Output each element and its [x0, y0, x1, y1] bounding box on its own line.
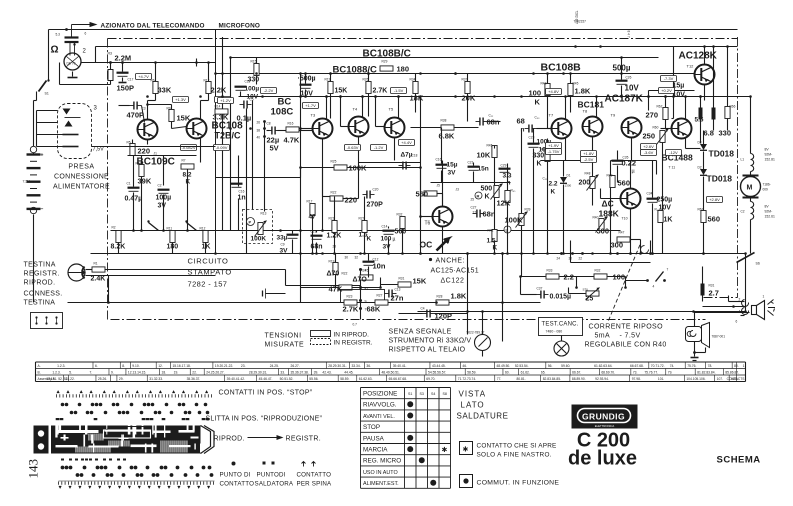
svg-text:9622-789.37: 9622-789.37: [467, 331, 485, 335]
svg-text:R66: R66: [730, 105, 736, 109]
svg-text:AC187K: AC187K: [605, 94, 644, 105]
svg-text:220: 220: [345, 196, 358, 205]
capacitor C32 68n: [479, 118, 481, 126]
resistor R4 vertical: [108, 70, 113, 81]
svg-text:SALDATURE: SALDATURE: [457, 412, 509, 421]
svg-text:de luxe: de luxe: [568, 448, 637, 470]
svg-text:R2: R2: [112, 226, 116, 230]
svg-text:33µ: 33µ: [277, 235, 288, 242]
svg-text:K: K: [551, 189, 556, 196]
svg-text:7687-001: 7687-001: [712, 335, 726, 339]
svg-text:ELETTRONICA: ELETTRONICA: [595, 424, 615, 428]
svg-text:15K: 15K: [335, 88, 348, 95]
svg-text:C29: C29: [501, 164, 507, 168]
contact dots row B: [61, 403, 65, 407]
svg-text:C9: C9: [281, 243, 285, 247]
svg-text:K: K: [367, 236, 372, 243]
svg-text:7186-: 7186-: [763, 183, 771, 187]
diode D1: [560, 177, 567, 183]
svg-text:C16: C16: [436, 158, 442, 162]
wire stage top rail: [239, 96, 701, 98]
battery 7.5V: [30, 146, 36, 152]
svg-text:188K: 188K: [599, 209, 620, 219]
resistor R5 220: [130, 144, 135, 156]
svg-text:R17: R17: [307, 200, 313, 204]
svg-text:CIRCUITO: CIRCUITO: [188, 257, 229, 266]
capacitor C13 27n: [388, 290, 390, 298]
wire chassis dash-dot corner: [704, 297, 738, 299]
svg-text:REGOLABILE CON R40: REGOLABILE CON R40: [585, 342, 667, 349]
resistor R8 2.2K: [206, 82, 211, 94]
svg-text:-12V: -12V: [669, 150, 678, 155]
svg-text:R10: R10: [136, 162, 142, 166]
svg-text:S1: S1: [45, 92, 49, 96]
svg-text:R22: R22: [342, 272, 348, 276]
capacitor C2 100u 3V: [158, 189, 170, 191]
svg-text:15µ: 15µ: [447, 162, 458, 169]
legend punto di contatto: [232, 462, 236, 466]
svg-text:36.: 36.: [366, 364, 371, 368]
svg-text:SLITTA IN POS. “RIPRODUZIONE”: SLITTA IN POS. “RIPRODUZIONE”: [206, 416, 323, 423]
svg-text:25.26.: 25.26.: [98, 377, 107, 381]
svg-text:68.69.70.: 68.69.70.: [601, 371, 615, 375]
svg-text:REGISTR.: REGISTR.: [286, 436, 321, 443]
svg-text:108C: 108C: [271, 107, 294, 118]
svg-text:J5: J5: [437, 184, 441, 188]
svg-text:-1.5V: -1.5V: [394, 88, 404, 93]
wire mid rail: [111, 230, 621, 232]
wire stage1 emitter drops: [133, 156, 135, 187]
svg-text:10V: 10V: [625, 84, 640, 93]
svg-text:5V: 5V: [270, 144, 279, 153]
svg-text:R33: R33: [547, 269, 553, 273]
resistor R12 1K: [203, 231, 208, 243]
svg-text:97.98.: 97.98.: [632, 377, 641, 381]
svg-text:35.36.37.: 35.36.37.: [187, 377, 201, 381]
svg-text:S1: S1: [408, 392, 412, 396]
svg-text:R28: R28: [437, 295, 443, 299]
svg-text:6.: 6.: [95, 364, 98, 368]
microphone MIC: [64, 53, 81, 70]
svg-text:8V: 8V: [765, 205, 770, 209]
svg-text:D3: D3: [698, 141, 702, 145]
svg-text:C21: C21: [468, 161, 474, 165]
wire supply bus BC108B/C upper: [231, 57, 659, 59]
svg-text:71.72.73.74.: 71.72.73.74.: [458, 377, 476, 381]
resistor R10 39K: [139, 165, 144, 177]
svg-text:L1: L1: [741, 158, 745, 162]
svg-text:C16: C16: [239, 190, 245, 194]
svg-text:107.: 107.: [717, 377, 724, 381]
svg-text:C17: C17: [128, 78, 134, 82]
svg-text:A.: A.: [38, 364, 41, 368]
svg-text:26: 26: [257, 121, 261, 125]
svg-text:560: 560: [395, 229, 407, 236]
node remote-control label: [71, 25, 73, 38]
svg-text:82.83.84.85.: 82.83.84.85.: [543, 377, 561, 381]
capacitor C16b 15u 3V: [436, 164, 448, 166]
capacitor C33 68n: [528, 125, 530, 133]
node dots stage1: [154, 61, 157, 64]
svg-text:0.22: 0.22: [622, 159, 637, 168]
svg-text:S4: S4: [431, 392, 435, 396]
svg-text:ALIMENTATORE: ALIMENTATORE: [53, 184, 110, 191]
svg-text:R42: R42: [541, 82, 547, 86]
svg-text:TD018: TD018: [707, 174, 733, 184]
svg-text:R27: R27: [359, 217, 365, 221]
svg-text:73.: 73.: [633, 371, 638, 375]
capacitor C n 500u 10V: [300, 84, 312, 86]
svg-text:28.29.30.31.: 28.29.30.31.: [328, 364, 346, 368]
svg-text:43.44.45.: 43.44.45.: [432, 364, 446, 368]
wire second top rail: [96, 46, 738, 48]
svg-text:70.71.72.: 70.71.72.: [651, 364, 665, 368]
svg-text:T9: T9: [611, 113, 616, 118]
svg-text:9.10.: 9.10.: [132, 364, 139, 368]
svg-text:T10: T10: [622, 217, 628, 221]
motor M: [741, 177, 761, 197]
svg-text:68n: 68n: [483, 210, 496, 219]
resistor R46 12K: [505, 191, 510, 203]
wire motor column: [750, 97, 752, 154]
svg-text:SOLO A FINE NASTRO.: SOLO A FINE NASTRO.: [477, 452, 552, 459]
svg-text:R7: R7: [182, 159, 186, 163]
lamp X: [554, 341, 569, 356]
resistor R16 4.7K: [286, 127, 299, 132]
resistor R26 2.7K: [366, 82, 371, 94]
svg-text:58.59.: 58.59.: [467, 371, 476, 375]
svg-text:ANCHE:: ANCHE:: [436, 258, 465, 265]
svg-text:K: K: [535, 98, 541, 107]
svg-text:100µ: 100µ: [245, 86, 260, 93]
svg-text:-2.5V: -2.5V: [584, 157, 594, 162]
wire chassis dash-dot right: [737, 37, 739, 298]
svg-text:-0.09V: -0.09V: [216, 145, 228, 150]
resistor R63 560: [701, 211, 706, 223]
svg-text:✱: ✱: [442, 446, 448, 454]
svg-text:26.27.: 26.27.: [291, 364, 300, 368]
svg-text:+: +: [41, 153, 44, 159]
svg-text:560: 560: [708, 215, 721, 224]
svg-text:T2B/C: T2B/C: [215, 131, 242, 141]
capacitor C19 68n: [311, 235, 323, 237]
transistor T3: [313, 119, 333, 139]
wire chassis dash-dot left: [107, 39, 109, 320]
measure boxes stage1: [136, 74, 152, 80]
wire left main vertical: [215, 30, 217, 254]
svg-text:2.7: 2.7: [709, 289, 719, 298]
capacitor C14 100u 3V: [383, 230, 395, 232]
svg-text:69.70.: 69.70.: [426, 377, 435, 381]
svg-text:R34: R34: [410, 78, 416, 82]
capacitor C34 250u 10V: [647, 198, 659, 200]
svg-text:9.: 9.: [111, 371, 114, 375]
wire feedback rail: [92, 146, 216, 148]
capacitor C21 15n: [468, 166, 480, 168]
connector testina box: [31, 313, 63, 329]
svg-text:66.67.: 66.67.: [572, 371, 581, 375]
svg-text:15n: 15n: [478, 166, 489, 173]
svg-text:58.59.: 58.59.: [340, 377, 349, 381]
svg-text:C1: C1: [127, 182, 131, 186]
svg-text:C2: C2: [158, 184, 162, 188]
legend tensioni boxes: [311, 331, 331, 337]
svg-text:40: 40: [257, 136, 261, 140]
svg-text:560: 560: [618, 179, 631, 188]
svg-text:220: 220: [138, 147, 151, 156]
wire top border: [49, 29, 738, 31]
svg-text:C27: C27: [471, 206, 477, 210]
resistor R43 330 K: [545, 150, 550, 162]
resistor R17 47: [310, 204, 315, 216]
resistor R45 10K: [492, 146, 497, 158]
svg-text:P: P: [249, 220, 252, 225]
svg-text:45.46.47.: 45.46.47.: [259, 377, 273, 381]
transistor T2 BC108: [187, 119, 207, 139]
svg-text:104.105.106.: 104.105.106.: [686, 377, 705, 381]
svg-text:30: 30: [569, 257, 573, 261]
svg-text:250µ: 250µ: [657, 197, 673, 204]
resistor R29 180: [380, 66, 393, 71]
svg-text:-3.6V: -3.6V: [644, 150, 654, 155]
svg-text:152.81: 152.81: [765, 158, 775, 162]
svg-text:R32: R32: [595, 269, 601, 273]
svg-text:18.: 18.: [162, 371, 167, 375]
resistor R32b 100: [594, 274, 607, 279]
svg-text:LATO: LATO: [461, 401, 485, 410]
transistor T10 AC188K: [621, 189, 641, 209]
svg-text:C5: C5: [250, 98, 254, 102]
svg-text:C26: C26: [626, 76, 632, 80]
legend contatto che si apre: [460, 442, 473, 455]
svg-text:R62: R62: [657, 105, 663, 109]
svg-text:R11: R11: [167, 227, 173, 231]
svg-text:85.86.87.: 85.86.87.: [725, 371, 739, 375]
wire bottom mid: [300, 168, 302, 303]
svg-text:R39: R39: [525, 208, 531, 212]
svg-text:C14: C14: [382, 225, 388, 229]
capacitor C17 150P: [117, 72, 129, 74]
svg-text:33.: 33.: [280, 371, 285, 375]
wire speaker feed: [745, 254, 747, 312]
ruler band: [36, 361, 746, 363]
svg-text:470P: 470P: [127, 111, 145, 120]
svg-text:74.: 74.: [670, 364, 675, 368]
svg-text:1.2.3.: 1.2.3.: [57, 364, 65, 368]
svg-text:R5: R5: [127, 141, 131, 145]
svg-text:46.: 46.: [462, 364, 467, 368]
svg-text:C19: C19: [311, 230, 317, 234]
svg-text:R45: R45: [573, 82, 579, 86]
svg-text:Ω: Ω: [51, 45, 59, 56]
svg-text:R12: R12: [200, 227, 206, 231]
svg-text:330: 330: [533, 153, 545, 160]
svg-text:R16: R16: [288, 122, 294, 126]
svg-text:R45: R45: [487, 144, 493, 148]
svg-text:T6: T6: [425, 221, 431, 227]
svg-text:C18: C18: [412, 154, 418, 158]
svg-text:42.43.: 42.43.: [322, 371, 331, 375]
svg-text:1.2.3.: 1.2.3.: [52, 371, 60, 375]
legend commut in funzione: [460, 475, 473, 488]
logo grundig: [572, 405, 638, 429]
svg-text:B.: B.: [38, 371, 41, 375]
svg-text:S70: S70: [583, 288, 589, 292]
contact dashes row D: [56, 418, 60, 420]
svg-text:SCHEMA: SCHEMA: [717, 455, 761, 466]
resistor R27b 68K: [375, 300, 388, 305]
svg-text:+2.8V: +2.8V: [709, 197, 720, 202]
svg-text:92M-: 92M-: [765, 210, 773, 214]
transistor T5: [385, 118, 405, 138]
svg-text:300: 300: [611, 241, 624, 250]
svg-text:J1: J1: [154, 152, 158, 156]
table dots: [407, 401, 413, 407]
svg-text:1.2K: 1.2K: [327, 233, 342, 240]
svg-text:ALIMENT.EST.: ALIMENT.EST.: [363, 481, 399, 487]
svg-text:24: 24: [557, 257, 561, 261]
svg-text:152.61: 152.61: [765, 215, 775, 219]
svg-text:R21: R21: [329, 217, 335, 221]
svg-text:25: 25: [471, 198, 475, 202]
resistor R22 1.5K: [362, 221, 367, 233]
svg-text:T12: T12: [687, 64, 695, 69]
svg-text:68: 68: [517, 117, 525, 126]
svg-text:M: M: [747, 185, 753, 192]
svg-text:C35: C35: [623, 156, 629, 160]
svg-text:39.40.41.42.: 39.40.41.42.: [227, 377, 245, 381]
resistor R60 250: [660, 131, 665, 143]
pot R48 200: [590, 177, 595, 189]
svg-text:+4.7V: +4.7V: [138, 74, 149, 79]
svg-text:TENSIONI: TENSIONI: [265, 333, 302, 340]
svg-text:TESTINA: TESTINA: [24, 300, 56, 307]
transistor T1 BC109C: [138, 120, 158, 140]
svg-text:+4.4V: +4.4V: [401, 140, 412, 145]
svg-text:560: 560: [416, 190, 429, 199]
resistor R31 2.7: [701, 284, 705, 296]
capacitor C5 0.1u: [243, 101, 245, 109]
svg-text:+0.2V: +0.2V: [661, 88, 672, 93]
svg-text:500: 500: [597, 227, 610, 236]
connector pins: [63, 109, 71, 115]
svg-text:COMMUT. IN FUNZIONE: COMMUT. IN FUNZIONE: [477, 480, 560, 487]
svg-text:7282 - 157: 7282 - 157: [188, 280, 228, 289]
transistor T9: [622, 118, 642, 138]
measure boxes: [218, 98, 234, 104]
speaker LS2 box: [686, 327, 702, 342]
svg-text:SENZA SEGNALE: SENZA SEGNALE: [389, 329, 452, 336]
wire stage2 lower drops: [312, 216, 314, 254]
wire stage3 emitters: [565, 139, 567, 161]
svg-text:USO IN AUTO: USO IN AUTO: [363, 470, 398, 476]
svg-text:+4.8V: +4.8V: [548, 89, 559, 94]
wire chassis dash-dot bottom: [111, 319, 706, 321]
svg-text:24.25.: 24.25.: [270, 364, 279, 368]
svg-text:48.49.50.51.: 48.49.50.51.: [381, 371, 399, 375]
svg-text:R63: R63: [698, 208, 704, 212]
svg-text:92.93.94.: 92.93.94.: [595, 377, 609, 381]
svg-text:143: 143: [26, 459, 41, 479]
svg-text:R31: R31: [709, 284, 715, 288]
svg-text:R₄₅: R₄₅: [511, 189, 517, 193]
svg-text:J3: J3: [456, 188, 460, 192]
svg-text:✱: ✱: [463, 446, 469, 454]
svg-text:R40: R40: [593, 216, 599, 220]
svg-text:RIAVVOLG.: RIAVVOLG.: [363, 402, 397, 409]
svg-text:-1.75V: -1.75V: [548, 149, 560, 154]
svg-text:39K: 39K: [138, 177, 152, 186]
svg-text:Assembly 51. 52. 53.: Assembly 51. 52. 53.: [38, 377, 69, 381]
svg-text:C2: C2: [741, 210, 745, 214]
svg-text:R24: R24: [361, 269, 367, 273]
svg-text:+1.3V: +1.3V: [175, 97, 186, 102]
svg-text:C13: C13: [395, 288, 401, 292]
diode D2 TD018: [700, 169, 707, 175]
transistor T12 AC128K: [695, 65, 715, 85]
svg-text:8 4 7: 8 4 7: [627, 31, 631, 38]
table posizione: [361, 387, 451, 389]
svg-text:C n: C n: [309, 76, 314, 80]
svg-text:500: 500: [481, 186, 493, 193]
svg-text:22.: 22.: [192, 371, 197, 375]
capacitor C27 68n: [476, 210, 478, 218]
svg-text:C20: C20: [373, 188, 379, 192]
svg-text:75.76.77.: 75.76.77.: [644, 371, 658, 375]
switch contacts on rail: [149, 223, 159, 231]
wire T11 net: [685, 139, 687, 149]
capacitor C1 0.47u: [128, 187, 140, 189]
svg-text:POSIZIONE: POSIZIONE: [363, 391, 397, 398]
slider linkage white box: [104, 430, 151, 438]
svg-text:R22: R22: [331, 191, 337, 195]
svg-text:78.: 78.: [708, 364, 713, 368]
svg-text:R47: R47: [619, 231, 625, 235]
svg-text:CONTATTO: CONTATTO: [220, 481, 255, 488]
svg-text:65.: 65.: [541, 371, 546, 375]
svg-text:CONTATTO CHE SI APRE: CONTATTO CHE SI APRE: [477, 443, 557, 450]
resistor R6 33K: [153, 82, 158, 94]
svg-text:R27: R27: [377, 294, 383, 298]
resistor R38 6.8K: [441, 125, 454, 130]
transistor T11 BC148B: [672, 119, 692, 139]
resistor R66: [725, 107, 730, 119]
pot R38b 100K: [519, 214, 524, 226]
svg-text:STAMPATO: STAMPATO: [188, 268, 232, 277]
svg-text:270: 270: [646, 111, 659, 120]
svg-text:+1.2V: +1.2V: [220, 98, 231, 103]
svg-text:6.8: 6.8: [704, 129, 714, 138]
svg-text:2.2K: 2.2K: [211, 86, 227, 95]
wire stage2 emitters: [322, 139, 324, 231]
svg-text:-0.082V: -0.082V: [181, 145, 195, 150]
svg-text:32: 32: [355, 256, 359, 260]
svg-text:120P: 120P: [435, 312, 453, 321]
svg-text:5mA - 7.5V: 5mA - 7.5V: [595, 333, 641, 340]
svg-text:ΔC: ΔC: [602, 199, 614, 209]
svg-text:39.40.41.: 39.40.41.: [393, 364, 407, 368]
transistor T8: [583, 117, 603, 137]
resistor R7 8.2: [181, 164, 194, 169]
svg-text:65.66.67.68.: 65.66.67.68.: [389, 377, 407, 381]
test canc box: [539, 318, 583, 336]
svg-text:CORRENTE RIPOSO: CORRENTE RIPOSO: [589, 324, 664, 331]
svg-text:T3: T3: [311, 113, 316, 118]
svg-text:24.25.26.27.: 24.25.26.27.: [206, 371, 224, 375]
svg-text:CONNESSIONE: CONNESSIONE: [54, 174, 109, 181]
svg-text:38: 38: [257, 129, 261, 133]
tape head: [68, 264, 85, 281]
